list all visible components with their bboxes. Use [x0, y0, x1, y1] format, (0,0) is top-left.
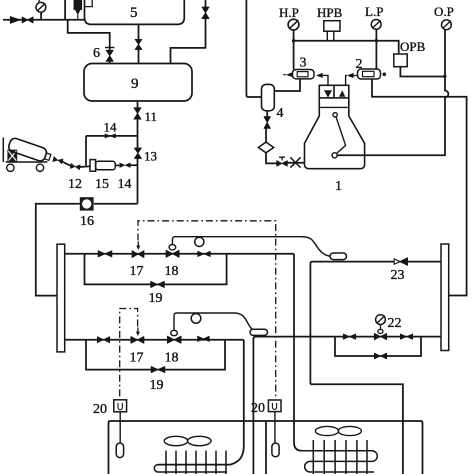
valve on 22 bypass [374, 353, 386, 359]
wire thermostat box to bulb room2 [274, 412, 276, 443]
capillary from valve 18 lower [174, 313, 234, 330]
left header manifold bar [57, 244, 65, 352]
wire bottle slope [62, 162, 70, 166]
coil room 2 fins [313, 440, 367, 474]
bypass 19 upper [85, 254, 227, 285]
thermostat box 20 room1 [114, 400, 127, 412]
svg-text:OPB: OPB [400, 39, 426, 54]
refrigerant bottle 12 [7, 137, 52, 164]
solenoid valve 17 lower [131, 328, 144, 344]
service cart with wheels [3, 138, 47, 172]
flow arrow into feed line [11, 17, 19, 22]
wire valve 14 to main line [130, 164, 137, 166]
svg-text:22: 22 [388, 316, 402, 331]
wire down to valve 6 [68, 20, 110, 47]
svg-text:20: 20 [251, 401, 265, 416]
wire feed line top-left [3, 19, 85, 21]
svg-text:HPB: HPB [317, 5, 343, 20]
svg-text:2: 2 [356, 57, 363, 72]
svg-text:1: 1 [335, 179, 342, 194]
junction dots on instrument header [292, 39, 378, 42]
svg-text:O.P: O.P [434, 4, 454, 19]
fan room 1 [164, 436, 211, 445]
svg-text:18: 18 [165, 264, 179, 279]
valve on upper branch [98, 251, 112, 257]
wire OPB to oil line [400, 67, 445, 77]
wire main liquid line down [137, 119, 139, 148]
wire strainer to valve 4 [265, 129, 267, 143]
wire vessel 9 bottom drop [137, 101, 139, 108]
coil room 2 serpentine [302, 451, 377, 472]
svg-text:6: 6 [93, 46, 100, 61]
wire upper branch liquid line [65, 253, 294, 255]
wire suction line room 2 riser [310, 262, 441, 385]
svg-text:3: 3 [300, 56, 307, 71]
coil room 1 return bend [154, 465, 227, 472]
valve 19 upper [151, 281, 165, 287]
wire liquid drop to room 2 [294, 254, 302, 451]
valve below receiver 4 [264, 117, 270, 129]
right header manifold bar [441, 244, 449, 351]
compressor 1 body [305, 98, 365, 169]
valve on feed line [22, 17, 33, 23]
condenser vessel 5 [85, 0, 185, 24]
expansion valve 18 upper [166, 245, 179, 258]
svg-text:19: 19 [150, 378, 164, 393]
svg-text:14: 14 [118, 177, 132, 192]
wire valve 6 to vessel 9 [109, 62, 111, 64]
valve 13 [134, 148, 141, 159]
junction dot OPB line [443, 75, 446, 78]
sensing circle on capillary upper [195, 237, 204, 246]
wire drain to strainer [266, 153, 277, 164]
wire charging upper branch [86, 135, 138, 137]
svg-text:19: 19 [149, 291, 163, 306]
compressor 1 crank mechanism [332, 113, 346, 158]
wire sight glass to left header [36, 204, 80, 296]
control line thermostat room2 to valve 17 upper (dash-dot) [138, 221, 276, 400]
drain valve with handle [277, 157, 288, 166]
suction regulator valve 2 [347, 69, 386, 79]
valve 14 right [120, 163, 130, 167]
hatched block on cart [7, 150, 17, 162]
svg-text:12: 12 [68, 177, 82, 192]
wire instrument header [294, 41, 399, 54]
svg-text:15: 15 [95, 177, 109, 192]
valve 11 [134, 108, 141, 119]
wire receiver 4 outlet to valve 3 [274, 79, 300, 91]
valve right of gauge 22 [400, 334, 412, 339]
svg-text:14: 14 [104, 120, 118, 135]
suction S-bend upper [302, 237, 331, 257]
suction S-bend lower [234, 313, 257, 331]
wire cold room top line [109, 421, 423, 474]
wire vessel 5 center drop [138, 24, 140, 39]
svg-text:L.P: L.P [365, 4, 383, 19]
wire H.P line to valve 3 [293, 41, 295, 70]
valve left of gauge 22 [343, 334, 355, 339]
wire suction down path room2 [310, 384, 403, 474]
pressure gauge on feed line [36, 0, 46, 20]
svg-text:13: 13 [144, 149, 157, 164]
wire charging left riser [85, 136, 87, 166]
thermostat box 20 room2 [268, 400, 281, 412]
valve on bottle neck [53, 157, 63, 164]
wire main line to sight glass [94, 203, 138, 205]
fan room 2 [315, 426, 361, 435]
bypass below valve 22 [335, 337, 421, 356]
valve 23 [394, 258, 407, 266]
wire O.P drop with crossover hop [337, 77, 448, 156]
solenoid valve 17 upper [132, 242, 144, 258]
svg-text:9: 9 [131, 76, 139, 92]
wire compressor drain line [287, 162, 304, 164]
gauge O.P [442, 20, 452, 77]
svg-text:H.P: H.P [279, 5, 299, 20]
svg-text:16: 16 [80, 214, 94, 229]
wire receiver 4 inlet from top [246, 0, 261, 97]
wire main liquid line lower [137, 158, 139, 203]
wire stub from top edge [64, 0, 66, 20]
valve on charge line [70, 163, 80, 169]
strainer diamond [258, 142, 273, 153]
wire room 1 right wall [265, 421, 267, 474]
valve on condensate inlet [202, 7, 209, 19]
wire thermostat box to bulb room1 [119, 412, 121, 443]
wire condensate inlet with valve at top right of vessel 5 [205, 0, 207, 7]
svg-text:17: 17 [130, 264, 144, 279]
wire liquid drop to room 1 [158, 340, 244, 465]
pressure switch HPB [324, 21, 340, 41]
wire condensate inlet down into vessel 9 [171, 19, 206, 64]
sensor bulb room1 [116, 443, 123, 458]
valve after 18 upper [198, 251, 210, 256]
valve 19 lower [151, 366, 165, 372]
svg-text:4: 4 [277, 106, 284, 121]
sensor bulb sleeve on suction upper [330, 253, 347, 260]
expansion valve 18 lower [167, 330, 181, 343]
compressor 1 cylinder head [319, 85, 349, 98]
valve 14 upper [105, 134, 115, 138]
svg-text:20: 20 [93, 402, 107, 417]
svg-text:5: 5 [130, 5, 138, 21]
gauge L.P [371, 20, 381, 70]
svg-text:18: 18 [165, 351, 179, 366]
oil receiver 4 [262, 84, 275, 110]
svg-text:23: 23 [391, 268, 405, 283]
valve after 18 lower [198, 336, 210, 341]
sight glass 16 [80, 197, 94, 210]
wire valve to receiver 4 [266, 111, 268, 117]
wire drier to valve 14 [115, 164, 119, 166]
wire lower branch liquid line [65, 339, 244, 341]
capillary from valve 18 upper [172, 237, 302, 245]
wire valve to vessel 9 [138, 50, 140, 64]
wire suction line room 1 [253, 337, 441, 474]
gauge valve 22 [374, 315, 386, 340]
receiver vessel 9 [84, 64, 192, 102]
discharge regulator valve 3 [283, 70, 322, 79]
pressure switch OPB [394, 54, 407, 67]
wire valve 2 bottom to sea line [372, 79, 467, 296]
safety valve above feed line [74, 0, 81, 20]
bypass 19 lower [86, 340, 225, 370]
wire valve 3 to compressor head [323, 75, 328, 85]
coil room 1 fins [166, 451, 226, 474]
sensor bulb sleeve on suction lower [250, 329, 268, 335]
sensing circle on capillary lower [191, 314, 201, 324]
svg-text:11: 11 [145, 109, 158, 124]
valve below vessel 5 [135, 39, 142, 49]
control line thermostat room1 to valve 17 lower (dash-dot) [120, 309, 138, 401]
valve 6 [105, 48, 114, 62]
flare cap symbol [290, 157, 300, 167]
wire charge line to drier [80, 165, 90, 168]
svg-text:17: 17 [130, 351, 144, 366]
sensor bulb room2 [272, 443, 279, 457]
drier 15 [90, 160, 115, 172]
gauge H.P [288, 19, 299, 40]
wire valve 2 to compressor head [346, 76, 347, 86]
valve on lower branch [97, 337, 109, 343]
